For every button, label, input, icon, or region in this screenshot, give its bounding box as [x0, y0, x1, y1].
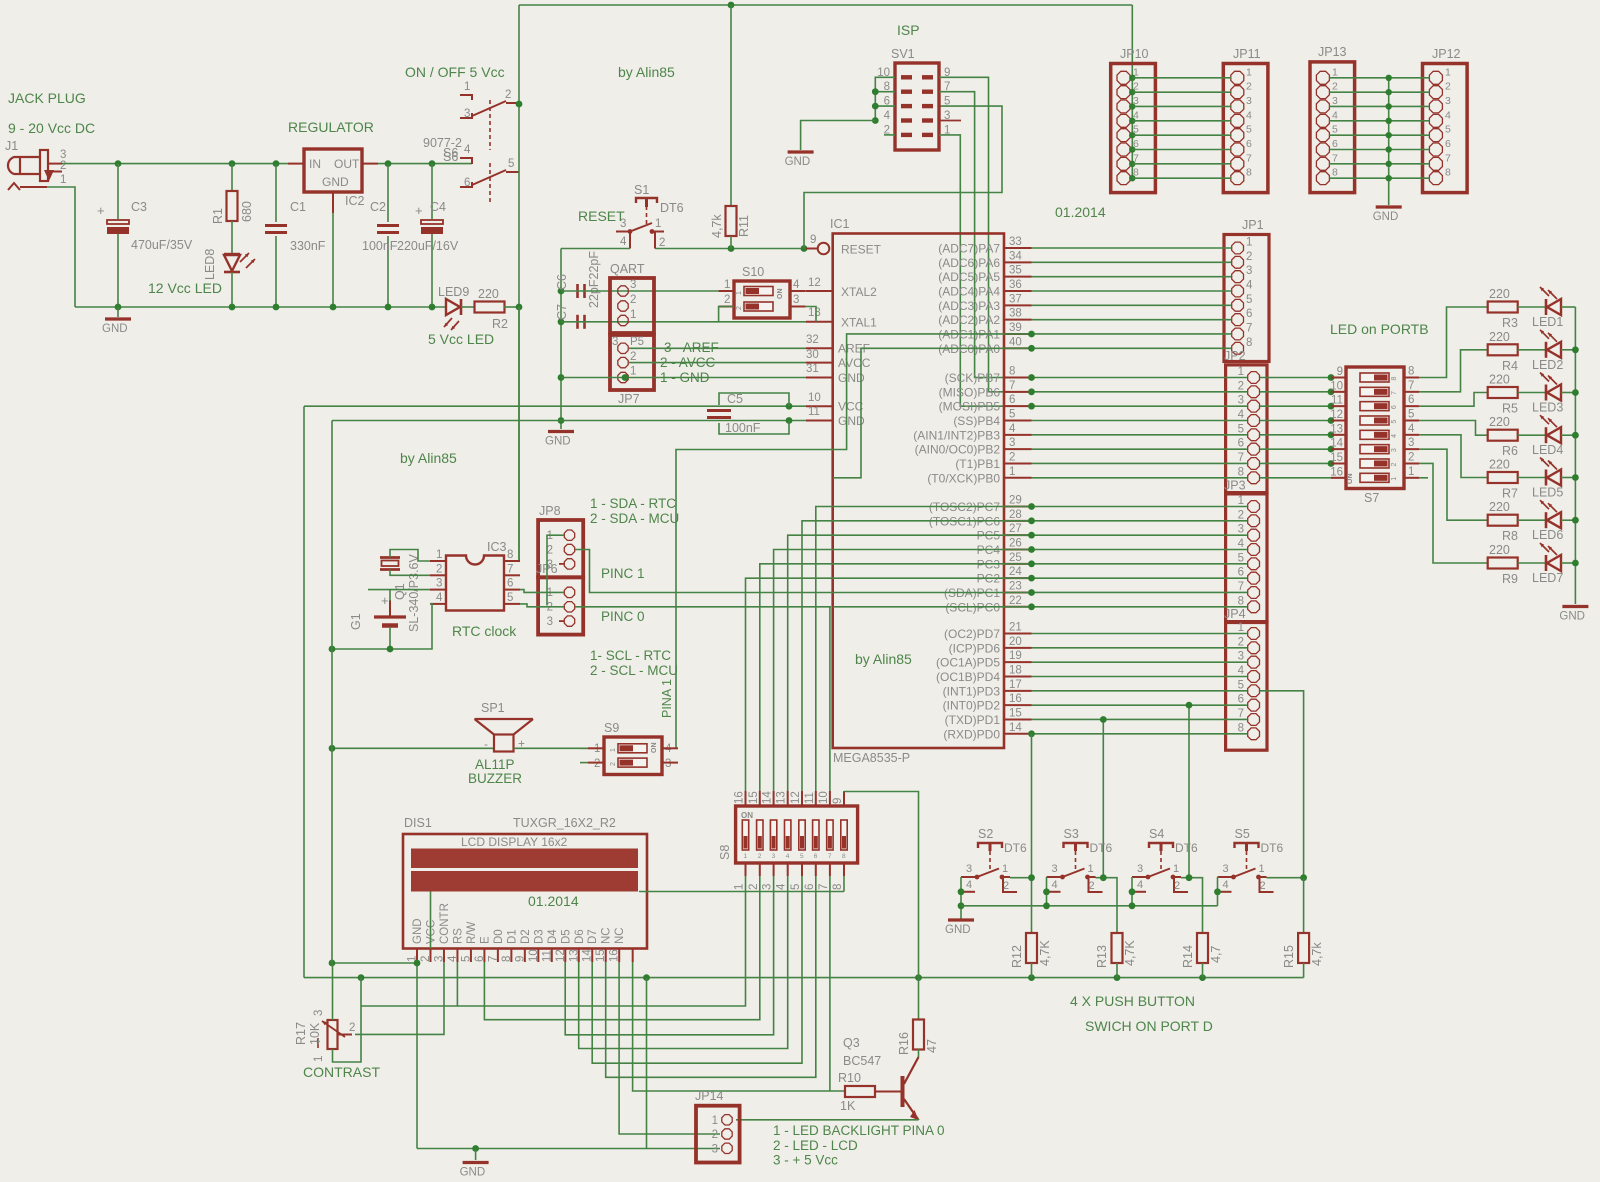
svg-text:220: 220: [1489, 415, 1510, 429]
svg-text:D2: D2: [520, 929, 532, 944]
svg-text:6: 6: [464, 177, 470, 189]
wire SV1 pin2 stub: [884, 134, 895, 136]
wires JP13 to JP12: [1329, 77, 1429, 79]
svg-text:37: 37: [1009, 293, 1022, 305]
switch S6 upper half: [460, 95, 472, 100]
pin S8 top 11: [815, 791, 817, 806]
wire JP13-JP12 common vertical to gnd: [1388, 78, 1390, 205]
svg-text:(AIN1/INT2)PB3: (AIN1/INT2)PB3: [913, 428, 1000, 442]
svg-text:4: 4: [464, 144, 471, 156]
svg-text:AL11P: AL11P: [475, 757, 515, 772]
svg-text:16: 16: [1009, 693, 1022, 705]
wire S7 pin2 to LED7: [1419, 463, 1488, 563]
LED LED2: [1518, 349, 1546, 351]
svg-text:JP3: JP3: [1224, 479, 1246, 493]
svg-text:(SCK)PB7: (SCK)PB7: [945, 371, 1001, 385]
svg-text:DIS1: DIS1: [404, 816, 432, 830]
svg-text:8: 8: [1246, 167, 1252, 179]
pin LCD 4 RS: [456, 949, 458, 963]
svg-text:R16: R16: [897, 1032, 911, 1055]
pin LCD 6 E: [483, 949, 485, 963]
svg-text:R12: R12: [1010, 945, 1024, 968]
svg-text:R/W: R/W: [466, 922, 478, 945]
pin S8 bottom 3: [773, 863, 775, 876]
wire LCD pin16 to JP14 pad2: [619, 962, 720, 1134]
pin IC1 PA (ADC1)PA1 pin 39: [1004, 333, 1032, 335]
pin S7 right 6: [1404, 405, 1419, 407]
svg-text:47: 47: [925, 1039, 939, 1053]
svg-text:7: 7: [507, 563, 513, 575]
svg-text:BC547: BC547: [843, 1054, 881, 1068]
svg-text:7: 7: [1009, 380, 1015, 392]
junction: [516, 101, 523, 108]
svg-text:21: 21: [1009, 622, 1022, 634]
trimmer R17 contrast: [328, 1020, 338, 1049]
connector JP8: [538, 520, 583, 577]
svg-text:8: 8: [832, 884, 844, 890]
junction: [728, 245, 735, 252]
capacitor C4: [431, 164, 433, 219]
pushbutton S4: [1149, 843, 1173, 848]
wire reset to ISP pin5: [804, 106, 1002, 248]
svg-text:01.2014: 01.2014: [528, 893, 579, 909]
svg-text:16: 16: [1330, 466, 1343, 478]
svg-text:4: 4: [966, 879, 972, 891]
wire AVCC: [629, 362, 806, 364]
svg-text:-: -: [484, 737, 488, 751]
resistor R8 220: [1488, 515, 1518, 526]
svg-text:1 - SDA - RTC: 1 - SDA - RTC: [590, 496, 676, 511]
svg-text:R4: R4: [1502, 359, 1518, 373]
wires JP10 to JP11: [1132, 77, 1231, 79]
+5V top rail: [519, 4, 1132, 6]
ground symbol under UART area: [548, 430, 574, 433]
LCD bar row1: [411, 849, 638, 869]
svg-text:2: 2: [420, 956, 432, 962]
svg-text:JP4: JP4: [1224, 607, 1246, 621]
pin IC3 pin4: [430, 603, 446, 605]
svg-text:(T1)PB1: (T1)PB1: [955, 457, 1000, 471]
svg-text:S2: S2: [978, 827, 993, 841]
svg-text:1: 1: [744, 853, 748, 860]
pin IC1 PB (T1)PB1 pin 2: [1004, 462, 1032, 464]
capacitor C7: [576, 315, 579, 329]
svg-text:6: 6: [474, 956, 486, 962]
svg-text:RTC clock: RTC clock: [452, 623, 517, 639]
svg-text:RS: RS: [452, 928, 464, 944]
svg-text:12: 12: [790, 791, 802, 804]
wire LED9-R2: [461, 306, 475, 308]
svg-text:2: 2: [630, 294, 636, 306]
wire top rail to JP10: [1131, 5, 1133, 78]
svg-text:4: 4: [1223, 879, 1229, 891]
svg-text:(RXD)PD0: (RXD)PD0: [943, 727, 1000, 741]
svg-text:470uF/35V: 470uF/35V: [131, 238, 193, 252]
IC IC1 MEGA8535-P body: [833, 234, 1004, 749]
svg-text:3: 3: [433, 956, 445, 962]
svg-text:1: 1: [1238, 495, 1244, 507]
svg-text:2: 2: [1089, 880, 1095, 892]
svg-text:5: 5: [1238, 423, 1244, 435]
svg-text:2: 2: [1238, 636, 1244, 648]
svg-text:3: 3: [1238, 524, 1244, 536]
svg-text:3: 3: [712, 1144, 718, 1156]
wire LCD pin14 to S8 pin5: [592, 876, 802, 1063]
pin LCD 17 nc: [632, 949, 634, 963]
svg-text:1 - LED BACKLIGHT PINA 0: 1 - LED BACKLIGHT PINA 0: [773, 1123, 945, 1138]
svg-text:2: 2: [1009, 451, 1015, 463]
svg-text:8: 8: [842, 853, 846, 860]
svg-text:10K: 10K: [308, 1022, 322, 1045]
svg-text:4: 4: [1009, 423, 1016, 435]
svg-text:JP1: JP1: [1242, 218, 1264, 232]
svg-text:26: 26: [1009, 537, 1022, 549]
svg-text:+: +: [415, 203, 423, 218]
wire S9 pin2 stub wire: [580, 762, 588, 764]
svg-text:1: 1: [1002, 863, 1008, 875]
pin IC1 PA (ADC0)PA0 pin 40: [1004, 347, 1032, 349]
connector JP1: [1224, 235, 1269, 362]
pin LCD 10 D3: [537, 949, 539, 963]
svg-text:9: 9: [514, 956, 526, 962]
svg-text:1: 1: [1246, 237, 1252, 249]
wire S7 pin8 to LED1: [1419, 307, 1488, 378]
svg-text:2: 2: [349, 1022, 355, 1034]
svg-text:JP10: JP10: [1120, 47, 1149, 61]
LED LED5: [1518, 477, 1546, 479]
svg-text:C5: C5: [727, 392, 743, 406]
wire LCD pin13 to S8 pin4: [579, 876, 788, 1049]
svg-text:4: 4: [436, 592, 443, 604]
wire SV1 left gnd chain: [875, 77, 895, 120]
svg-text:5: 5: [508, 158, 514, 170]
svg-text:1: 1: [1332, 66, 1338, 78]
resistor R9 220: [1488, 558, 1518, 569]
svg-text:220: 220: [1489, 543, 1510, 557]
svg-text:BUZZER: BUZZER: [468, 771, 522, 786]
pushbutton S3: [1064, 843, 1088, 848]
capacitor C3: [117, 164, 119, 219]
pin S7 right 5: [1404, 419, 1419, 421]
svg-text:S10: S10: [742, 265, 764, 279]
wires PA rows to JP1: [1032, 247, 1232, 249]
pin S8 top 16: [745, 791, 747, 806]
pin JP6 pad3 nub: [559, 620, 564, 622]
wire PA0 to PINC0 route: [833, 348, 1032, 477]
pin IC3 pin7: [504, 574, 520, 576]
pin IC1 PC PC5 pin 27: [1004, 534, 1032, 536]
wire PD2 to S4: [1188, 705, 1190, 878]
svg-text:IC3: IC3: [487, 540, 507, 554]
speaker SP1: [475, 718, 534, 720]
pin LCD 11 D4: [551, 949, 553, 963]
svg-text:100nF: 100nF: [362, 239, 398, 253]
svg-text:(ADC6)PA6: (ADC6)PA6: [938, 256, 1000, 270]
connector JP6: [538, 577, 583, 634]
junction: [558, 288, 565, 295]
svg-text:6: 6: [1238, 567, 1244, 579]
svg-text:SL-340/P3.6V: SL-340/P3.6V: [407, 554, 421, 632]
svg-text:GND: GND: [545, 436, 571, 448]
svg-text:(SS)PB4: (SS)PB4: [953, 414, 1000, 428]
svg-text:LED5: LED5: [1532, 486, 1563, 500]
svg-text:(ADC4)PA4: (ADC4)PA4: [938, 284, 1000, 298]
svg-text:ON: ON: [777, 289, 784, 300]
svg-text:220: 220: [1489, 330, 1510, 344]
svg-text:4,7k: 4,7k: [1310, 942, 1324, 966]
battery G1: [374, 615, 406, 618]
LED LED7: [1518, 562, 1546, 564]
transistor Q3 BC547: [901, 1076, 905, 1107]
pin IC1 PD (OC1A)PD5 pin 19: [1004, 661, 1032, 663]
pin IC1 PD (TXD)PD1 pin 15: [1004, 718, 1032, 720]
svg-text:680: 680: [240, 201, 254, 222]
svg-text:JACK PLUG: JACK PLUG: [8, 90, 86, 106]
svg-text:7: 7: [1246, 152, 1252, 164]
svg-text:4,7K: 4,7K: [1123, 940, 1137, 966]
svg-text:7: 7: [1238, 581, 1244, 593]
wire Vin top rail: [62, 163, 288, 165]
svg-text:1: 1: [736, 291, 743, 295]
svg-text:6: 6: [814, 853, 818, 860]
wire +5V to IC3 pin8: [519, 307, 520, 559]
svg-text:7: 7: [1332, 152, 1338, 164]
svg-text:13: 13: [808, 307, 821, 319]
pin IC1 PB (SS)PB4 pin 5: [1004, 419, 1032, 421]
pin IC1 PB (MOSI)PB5 pin 6: [1004, 405, 1032, 407]
connector JP13: [1310, 62, 1355, 193]
svg-text:24: 24: [1009, 566, 1022, 578]
svg-text:6: 6: [1445, 138, 1451, 150]
svg-text:4: 4: [884, 110, 891, 122]
svg-text:38: 38: [1009, 308, 1022, 320]
svg-text:Q3: Q3: [843, 1036, 860, 1050]
svg-text:31: 31: [806, 363, 819, 375]
svg-text:2: 2: [1174, 880, 1180, 892]
svg-text:11: 11: [804, 792, 816, 804]
pin S7 left 13: [1331, 434, 1346, 436]
svg-text:ISP: ISP: [897, 22, 920, 38]
connector JP10: [1111, 64, 1156, 193]
svg-text:5: 5: [944, 96, 950, 108]
pin LCD 14 D7: [591, 949, 593, 963]
svg-text:9: 9: [1337, 366, 1343, 378]
wire PC2 to S8: [746, 578, 1032, 791]
svg-text:4: 4: [1137, 879, 1143, 891]
pin S10-2 stub: [719, 306, 734, 308]
svg-text:2: 2: [1391, 462, 1398, 466]
svg-text:QART: QART: [610, 262, 645, 276]
pushbutton S5: [1235, 843, 1259, 848]
svg-text:CONTR: CONTR: [439, 903, 451, 944]
svg-text:5: 5: [800, 853, 804, 860]
wire PC5 to S8: [788, 535, 1032, 791]
svg-text:27: 27: [1009, 523, 1022, 535]
svg-text:(MISO)PB6: (MISO)PB6: [939, 385, 1001, 399]
svg-text:4: 4: [1052, 879, 1058, 891]
pin IC1 PB (AIN1/INT2)PB3 pin 4: [1004, 434, 1032, 436]
pin IC1 PB (T0/XCK)PB0 pin 1: [1004, 477, 1032, 479]
svg-text:S4: S4: [1149, 827, 1164, 841]
svg-text:5: 5: [1408, 408, 1414, 420]
junction PA1 PA0 stub dots: [1028, 331, 1035, 338]
svg-text:(OC1B)PD4: (OC1B)PD4: [936, 670, 1000, 684]
wire PC3 to S8: [760, 564, 1032, 791]
svg-text:LCD DISPLAY 16x2: LCD DISPLAY 16x2: [461, 835, 568, 849]
wire R10 to base: [875, 1091, 901, 1093]
svg-text:C7: C7: [555, 304, 569, 320]
wire LCD pin15 to S8 pin6: [606, 876, 816, 1077]
capacitor C2: [387, 164, 389, 222]
pin IC1 PC (SCL)PC0 pin 22: [1004, 606, 1032, 608]
wire buzzer to S9: [514, 747, 589, 749]
svg-text:P5: P5: [630, 336, 644, 348]
pin IC1 PA (ADC4)PA4 pin 36: [1004, 290, 1032, 292]
svg-text:10: 10: [808, 392, 821, 404]
pushbutton S1: [636, 198, 657, 203]
svg-text:LED4: LED4: [1532, 443, 1563, 457]
svg-text:1: 1: [1445, 66, 1451, 78]
svg-text:1: 1: [724, 279, 730, 291]
svg-text:D6: D6: [574, 929, 586, 944]
wire pot pin2 wiper: [338, 1034, 353, 1036]
svg-text:3: 3: [1246, 95, 1252, 107]
svg-text:3: 3: [1223, 863, 1229, 875]
svg-text:9: 9: [832, 798, 844, 804]
svg-text:6: 6: [804, 884, 816, 890]
svg-text:3: 3: [464, 108, 470, 120]
svg-text:4: 4: [447, 955, 459, 962]
wire C5 loop: [719, 393, 789, 406]
pin IC3 pin6: [504, 589, 520, 591]
wire S2 left to gnd: [960, 877, 962, 920]
LED LED1: [1518, 306, 1546, 308]
svg-text:2: 2: [1003, 880, 1009, 892]
svg-text:11: 11: [808, 406, 820, 418]
svg-text:5: 5: [1246, 294, 1252, 306]
svg-text:J1: J1: [5, 139, 18, 153]
svg-text:33: 33: [1009, 236, 1022, 248]
svg-text:5: 5: [460, 956, 472, 962]
svg-text:S6: S6: [443, 150, 458, 164]
svg-text:S3: S3: [1064, 827, 1079, 841]
resistor R2: [475, 302, 505, 313]
wire S7 pin4 to LED5: [1419, 435, 1488, 478]
wire PD0 to S2: [1031, 734, 1033, 920]
svg-text:8: 8: [1391, 377, 1398, 381]
svg-text:1: 1: [1173, 863, 1179, 875]
svg-text:OUT: OUT: [334, 157, 360, 171]
svg-text:1: 1: [1088, 863, 1094, 875]
wire S10 pin2 jog: [719, 307, 734, 322]
pin S7 right 2: [1404, 462, 1419, 464]
svg-text:14: 14: [1009, 722, 1022, 734]
svg-text:3 - + 5 Vcc: 3 - + 5 Vcc: [773, 1153, 838, 1168]
svg-text:C4: C4: [430, 200, 446, 214]
pin IC1 PA (ADC6)PA6 pin 34: [1004, 261, 1032, 263]
svg-text:JP2: JP2: [1224, 349, 1246, 363]
wire battery minus to gnd lane: [389, 627, 391, 649]
svg-text:4: 4: [1238, 538, 1245, 550]
svg-text:3: 3: [1246, 265, 1252, 277]
wire PC4 to S8: [774, 549, 1032, 791]
pin S8 top 14: [773, 791, 775, 806]
ground symbol S2: [948, 918, 974, 921]
pin S7 left 9: [1331, 377, 1346, 379]
svg-text:13: 13: [1330, 423, 1343, 435]
svg-text:1: 1: [610, 748, 617, 752]
wire regulator output: [378, 163, 472, 165]
dip switch S8: [736, 806, 858, 863]
pin S8 top 12: [801, 791, 803, 806]
svg-text:4 X PUSH BUTTON: 4 X PUSH BUTTON: [1070, 993, 1195, 1009]
wire PA1 to PINA1 route: [676, 334, 1032, 748]
svg-text:R17: R17: [294, 1022, 308, 1045]
svg-text:9: 9: [810, 234, 816, 246]
svg-text:17: 17: [1009, 679, 1022, 691]
svg-text:3: 3: [1009, 437, 1015, 449]
svg-text:GND: GND: [322, 175, 349, 189]
svg-text:(ICP)PD6: (ICP)PD6: [949, 641, 1001, 655]
pin S8 bottom 7: [829, 863, 831, 876]
pin IC1 PC (TOSC1)PC6 pin 28: [1004, 520, 1032, 522]
wire battery plus to pin3: [389, 600, 391, 617]
svg-text:C1: C1: [290, 200, 306, 214]
svg-text:IN: IN: [309, 157, 321, 171]
svg-text:2: 2: [1238, 380, 1244, 392]
svg-text:(MOSI)PB5: (MOSI)PB5: [939, 400, 1001, 414]
svg-text:4: 4: [1238, 665, 1245, 677]
pin S8 bottom 6: [815, 863, 817, 876]
pin S9 stubs: [588, 747, 604, 749]
connector JP11: [1223, 64, 1268, 193]
pin IC1 AREF: [806, 347, 833, 349]
connector JP12: [1423, 64, 1468, 193]
svg-text:25: 25: [1009, 552, 1022, 564]
svg-text:DT6: DT6: [660, 201, 684, 215]
svg-text:12: 12: [808, 277, 821, 289]
pin IC1 XTAL1: [806, 321, 833, 323]
wire IC3 pin6 to JP6 pad1: [520, 590, 564, 593]
pin IC1 AVCC: [806, 362, 833, 364]
svg-text:100nF: 100nF: [725, 421, 761, 435]
junction: [872, 88, 879, 95]
junction: [786, 403, 793, 410]
pin S7 left 14: [1331, 448, 1346, 450]
svg-text:1- SCL - RTC: 1- SCL - RTC: [590, 648, 671, 663]
svg-text:SWICH ON PORT D: SWICH ON PORT D: [1085, 1018, 1213, 1034]
pin IC1 XTAL2: [806, 290, 833, 292]
wire XTAL2 net: [561, 290, 719, 292]
svg-text:2: 2: [712, 1129, 718, 1141]
jack plug J1: [8, 157, 40, 174]
svg-text:22pF22pF: 22pF22pF: [587, 251, 601, 308]
svg-text:4,7k: 4,7k: [710, 214, 724, 238]
svg-text:3: 3: [1238, 651, 1244, 663]
svg-text:8: 8: [1445, 167, 1451, 179]
svg-text:3: 3: [1391, 448, 1398, 452]
svg-text:GND: GND: [1373, 211, 1399, 223]
svg-text:4,7: 4,7: [1209, 946, 1223, 963]
svg-text:2: 2: [60, 160, 66, 172]
svg-text:D4: D4: [547, 929, 559, 944]
svg-text:2: 2: [1260, 880, 1266, 892]
junction: [728, 2, 735, 9]
svg-text:32: 32: [806, 334, 819, 346]
svg-text:(INT0)PD2: (INT0)PD2: [943, 699, 1001, 713]
svg-text:2: 2: [594, 758, 600, 770]
svg-text:3: 3: [793, 294, 799, 306]
